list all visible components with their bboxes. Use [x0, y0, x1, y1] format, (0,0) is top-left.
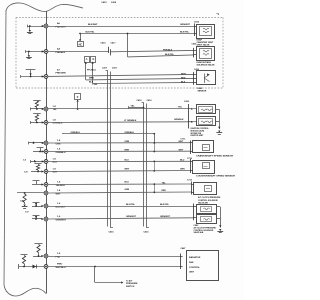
wire WHT row y193 [48, 192, 191, 193]
connector pin D5 [44, 160, 48, 164]
wire pin2 ground stub [26, 50, 44, 55]
junction crank2 [153, 143, 155, 152]
svg-text:BLK/YEL: BLK/YEL [180, 32, 190, 34]
wire BLK/YEL row y33.5 [80, 33, 194, 35]
label BLK/YEL mid2 [165, 54, 175, 56]
arrow into box B [92, 62, 94, 84]
connector pin A4 [44, 50, 48, 54]
PCM dashed border top [16, 17, 223, 19]
connector pin D1 [44, 107, 48, 111]
label C17 [25, 212, 30, 214]
label A icm [191, 108, 193, 111]
svg-text:EVAP: EVAP [197, 38, 203, 41]
connector bracket atp [192, 182, 195, 195]
label WHT right crank2 [179, 149, 184, 151]
label BLK [89, 82, 94, 84]
connector pin A15 [44, 254, 48, 258]
svg-text:C951: C951 [192, 43, 198, 45]
svg-text:WHT: WHT [179, 141, 184, 143]
label C416 [111, 1, 117, 4]
svg-text:ORN/BLU: ORN/BLU [56, 152, 66, 154]
label D9 BLU/WHT [56, 203, 67, 208]
svg-text:WHT: WHT [53, 172, 59, 174]
wire pin8 stub [31, 160, 44, 163]
label C416 C417 [101, 42, 117, 45]
svg-text:PNK/BLK: PNK/BLK [56, 52, 66, 54]
junction counter2 [153, 161, 155, 171]
svg-text:EVAP BYPASS: EVAP BYPASS [197, 61, 212, 64]
label GRN/WHT mid [126, 216, 137, 218]
svg-text:PNK/GRN: PNK/GRN [56, 73, 67, 75]
resistor R4 [23, 194, 26, 203]
svg-text:BLU: BLU [180, 160, 185, 162]
label C417 C417 pair1 [102, 66, 118, 69]
junction pin13 [35, 216, 37, 220]
svg-text:RED: RED [181, 78, 186, 80]
solenoid EVAP bypass solenoid valve box [197, 47, 215, 61]
solenoid A/T clutch sol B box [197, 215, 217, 224]
svg-text:A/T CLUTCH PRESSURE: A/T CLUTCH PRESSURE [198, 196, 221, 199]
caption A/T pressure control [198, 196, 221, 204]
junction counter1 [153, 161, 155, 163]
label BLK/YEL right [180, 32, 190, 34]
connector pin D7 [44, 183, 48, 187]
caption EVAP bypass solenoid valve [197, 61, 216, 67]
reference box F [75, 94, 81, 100]
label D10 GRN/WHT [56, 216, 67, 221]
label C416 C416 pair2 [137, 99, 153, 102]
connector C951 label [192, 43, 198, 45]
label D4 ORN/BLU [56, 149, 66, 154]
ground G3 [22, 203, 28, 209]
ignition control module box B [197, 117, 216, 126]
wire pin9 stub [31, 171, 42, 173]
label A16 PNK/WHT [56, 264, 67, 269]
wire R5 to stub [38, 253, 40, 257]
label YEL right [178, 106, 183, 108]
resistor R5 [35, 244, 43, 253]
arrow into pin3 [42, 75, 44, 77]
PCM dashed border bottom [16, 87, 223, 89]
label *1 [217, 12, 220, 16]
connector pin D10 [44, 217, 48, 221]
caption countershaft speed sensor [196, 175, 236, 178]
connector bracket radiator [180, 254, 183, 270]
junction atps [94, 266, 96, 268]
wire pin15 stub [19, 264, 44, 269]
cable pair2 left [142, 103, 144, 227]
reference box B [91, 57, 96, 63]
label C146 [92, 83, 98, 86]
svg-text:A: A [191, 108, 193, 111]
label C415 [101, 1, 107, 4]
reference box HC [78, 42, 84, 47]
label ORN/BLU mid2 [125, 132, 135, 134]
junction pin1 [29, 25, 31, 27]
ground ICM [216, 127, 222, 135]
svg-text:PPL/BLU: PPL/BLU [87, 69, 96, 71]
svg-text:C416: C416 [147, 99, 153, 102]
connector C915 label [194, 21, 200, 23]
connector bracket crank [190, 141, 193, 155]
label D1 YEL [53, 106, 58, 111]
wire pin5 stub [30, 121, 43, 124]
connector bracket EGR [194, 72, 197, 85]
junction pin12 [35, 203, 37, 207]
junction crank1 [153, 142, 155, 144]
ignition control module box A [197, 105, 216, 114]
svg-text:YEL/BLU: YEL/BLU [56, 185, 66, 187]
label WHT right egr [181, 74, 186, 76]
arrow into pin12 [41, 205, 43, 207]
svg-text:SENSOR: SENSOR [198, 91, 207, 93]
caption EVAP canister vent shut valve [197, 38, 214, 46]
connector C711 label [181, 138, 187, 140]
arrow into pin14 [41, 255, 43, 257]
radiator fan control unit box [187, 251, 219, 281]
svg-text:WHT: WHT [56, 194, 62, 196]
label YEL mid [131, 106, 136, 108]
ground G1 [27, 30, 33, 34]
label ORN mid [125, 141, 130, 143]
wire R1 to stub [36, 107, 38, 109]
svg-text:BLK/YEL: BLK/YEL [160, 204, 170, 206]
connector pin A16 [44, 265, 48, 269]
label A7 PNK/GRN [56, 68, 67, 74]
wire PNK/BLK continuation y52.2 [111, 50, 194, 51]
label GRN right counter [180, 168, 185, 170]
svg-text:C712: C712 [187, 180, 193, 182]
sensor crankshaft speed sensor box [193, 141, 214, 153]
connector pin D4 [44, 150, 48, 154]
arrow into box F [77, 99, 79, 109]
wire WHT row y171.5 [48, 171, 190, 172]
resistor R6 [21, 255, 28, 264]
label PPL/BLU [87, 69, 96, 71]
wire pin3 stub [21, 70, 44, 78]
connector pin D8 [44, 191, 48, 195]
svg-text:YEL: YEL [53, 109, 58, 111]
svg-text:C416: C416 [109, 231, 115, 234]
wire BLK/YEL row y57 [128, 55, 194, 57]
connector pin D3 [44, 141, 48, 145]
wire PNK/WHT row y26 [48, 26, 194, 28]
svg-text:PNK/BLK: PNK/BLK [163, 50, 173, 52]
svg-text:GRN: GRN [180, 168, 185, 170]
svg-text:BLK/YEL: BLK/YEL [86, 32, 96, 34]
wire BLU/WHT row y206 [48, 206, 193, 208]
connector bracket EVAP bypass [194, 48, 197, 58]
label A4 PNK/BLK [56, 48, 66, 54]
cable pair1 right [111, 72, 114, 228]
arrow into pin6 [42, 142, 44, 144]
label ORN/BLU mid1 [71, 132, 81, 134]
sensor countershaft speed sensor box [193, 161, 215, 174]
svg-text:BLU: BLU [125, 160, 130, 162]
label D7 YEL/BLU [56, 182, 66, 187]
caption A/T clutch solenoid valves [194, 225, 217, 234]
svg-text:BLK/WHT: BLK/WHT [88, 24, 98, 26]
arrow into pin13 [41, 218, 43, 220]
diode D1 [33, 265, 37, 269]
reference box A [85, 57, 90, 63]
connector bracket ICM [189, 104, 197, 129]
wire HC box drop [80, 34, 82, 40]
wire EGR row1 y75.3 [48, 74, 193, 76]
svg-text:GRN/BLK: GRN/BLK [53, 123, 63, 125]
wire YEL row y107.5 [129, 106, 145, 109]
svg-text:WHT: WHT [125, 169, 130, 171]
wire drop to A/T pressure switch [95, 267, 122, 283]
label D5 BLU [53, 158, 58, 163]
cable pair1 left [106, 71, 108, 227]
wire pin1 ground stub [27, 25, 43, 30]
arrow into pin4 [42, 108, 44, 110]
svg-text:RED: RED [162, 190, 167, 192]
wire - torn harness edge top [6, 3, 83, 12]
connector C416 label egr [194, 68, 200, 71]
svg-text:IGNITOR UNIT: IGNITOR UNIT [191, 135, 205, 137]
svg-text:COUNTERSHAFT SPEED SENSOR: COUNTERSHAFT SPEED SENSOR [196, 175, 236, 178]
label RED mid [162, 182, 167, 192]
label L18 [23, 160, 27, 162]
sensor A/T pressure box [194, 183, 217, 195]
wire pin11 long left [17, 192, 44, 194]
wire PNK row y256 [48, 256, 180, 258]
label BLU right counter [180, 160, 185, 162]
arrow into pin8 [42, 160, 44, 162]
svg-text:C415: C415 [101, 1, 107, 4]
label RED right egr [181, 78, 186, 80]
connector C416 label icm [184, 100, 190, 103]
svg-text:C416: C416 [144, 231, 150, 234]
wire ORN/BLU row y151.5 [48, 150, 190, 152]
wire - main connector bus [46, 11, 48, 293]
svg-text:SOLENOID VALVE: SOLENOID VALVE [197, 64, 216, 67]
svg-text:CONTROL: CONTROL [189, 267, 200, 269]
svg-text:FAN: FAN [189, 261, 194, 264]
ground G2 [26, 55, 32, 58]
resistor R2 [33, 114, 41, 121]
wire YEL/BLU row y184.5 [48, 183, 191, 186]
label C49 [20, 200, 25, 203]
svg-text:C417: C417 [102, 66, 108, 69]
svg-text:GRN: GRN [125, 189, 130, 191]
label D8 WHT [56, 190, 62, 195]
connector pin D2 [44, 121, 48, 125]
svg-text:ORN/BLU: ORN/BLU [125, 132, 135, 134]
svg-text:GRN/BLK: GRN/BLK [174, 119, 184, 121]
svg-text:BRN: BRN [125, 150, 130, 152]
wire YEL row y109 [48, 108, 189, 110]
svg-text:WHT: WHT [181, 74, 186, 76]
svg-text:BLU: BLU [53, 162, 58, 164]
svg-text:MRN: MRN [89, 78, 94, 80]
wire BLK row3 y83.3 [93, 82, 194, 83]
solenoid EVAP canister vent shut valve box [197, 25, 215, 39]
svg-text:C915: C915 [194, 21, 200, 23]
svg-text:C710: C710 [187, 158, 193, 160]
arrow into pin5 [42, 121, 44, 123]
svg-text:C416: C416 [101, 42, 107, 45]
wire GRN/WHT row y219 [48, 218, 193, 219]
label D2 GRN/BLK [53, 119, 63, 124]
label GRN mid [125, 189, 130, 191]
label BLU mid2 [125, 182, 130, 184]
arrow into pin9 [41, 170, 43, 172]
svg-text:HC: HC [79, 44, 83, 47]
svg-text:To A/T: To A/T [126, 279, 133, 282]
svg-text:C487: C487 [181, 247, 187, 250]
wire ORN/BLU row y133.8 [62, 133, 154, 135]
svg-text:C416: C416 [137, 99, 143, 102]
svg-text:CONTROL SOLENOID: CONTROL SOLENOID [198, 200, 218, 202]
svg-text:LT GRN/BLK: LT GRN/BLK [124, 120, 137, 122]
svg-text:RADIATOR: RADIATOR [189, 256, 201, 259]
svg-text:BLU/YEL: BLU/YEL [126, 204, 136, 206]
caption crankshaft speed sensor [196, 155, 234, 158]
wire pin6 stub [29, 142, 44, 145]
cable pair2 right [147, 104, 150, 228]
connector bracket EVAP vent [194, 24, 197, 37]
svg-text:ORN/BLU: ORN/BLU [71, 132, 81, 134]
wire ORN row y143 [48, 142, 190, 144]
resistor R1 [33, 101, 41, 108]
wire R2 to stub [36, 121, 38, 123]
connector C487 label [181, 247, 187, 250]
wire R3 to stub [37, 170, 39, 172]
label LT GRN/BLK mid [124, 120, 137, 122]
connector pin A7 [44, 75, 48, 79]
label BLK right egr [181, 82, 186, 84]
svg-text:C146: C146 [92, 83, 98, 86]
label MRN [89, 78, 94, 80]
sensor EGR valve box [197, 71, 216, 85]
svg-text:CANISTER VENT: CANISTER VENT [197, 41, 214, 44]
junction pin3 [30, 73, 32, 77]
svg-text:PNK/: PNK/ [57, 264, 63, 266]
wire R6 to stub [23, 264, 25, 268]
svg-text:C416: C416 [111, 1, 117, 4]
svg-text:EGR: EGR [198, 88, 203, 90]
arrow into box A [85, 62, 87, 80]
junction pin4 [36, 108, 38, 110]
arrow into pin7 [42, 150, 44, 152]
label PNK/BLK mid [163, 50, 173, 52]
junction pin2 [28, 51, 30, 53]
wire BLK/YEL branch drop [127, 33, 129, 57]
inline connector C416/C417 [109, 47, 111, 56]
label BLK/YEL mid [86, 32, 96, 34]
wire MRN row2 y79.3 [86, 78, 194, 80]
wire pin14 stub [33, 256, 42, 258]
svg-text:WHT/BLU: WHT/BLU [56, 267, 67, 269]
junction pin11 [24, 192, 26, 194]
arrow into HC box [79, 39, 81, 41]
junction F row [77, 108, 79, 110]
connector C712 label [187, 180, 193, 182]
wire pin13 stub [32, 216, 42, 220]
label GRN/WHT mid2 [160, 216, 171, 218]
svg-text:GRN/WHT: GRN/WHT [180, 24, 191, 26]
svg-text:GRN/WHT: GRN/WHT [126, 216, 137, 218]
label BLU/YEL mid [126, 204, 136, 206]
label A6 PNK/WHT [56, 22, 67, 28]
svg-text:C417: C417 [111, 42, 117, 45]
wire ICM common ground [216, 109, 220, 129]
label C416 pair2 bottom [144, 231, 150, 234]
svg-text:WHT: WHT [179, 149, 184, 151]
resistor R3 [35, 164, 42, 171]
svg-text:B: B [191, 121, 193, 124]
connector bracket sol [194, 204, 197, 221]
wire pin10 stub [32, 181, 42, 185]
label BLK/YEL mid3 [160, 204, 170, 206]
label A15 PNK [56, 253, 61, 258]
svg-text:A: A [86, 57, 88, 61]
arrow to A/T pressure switch [121, 281, 123, 283]
svg-text:C417: C417 [112, 66, 118, 69]
junction ORN/BLU [153, 133, 155, 135]
label C31 [24, 172, 29, 174]
svg-text:UNIT: UNIT [189, 272, 195, 274]
svg-text:BLK: BLK [181, 82, 186, 84]
svg-text:CRANKSHAFT SPEED SENSOR: CRANKSHAFT SPEED SENSOR [196, 155, 234, 158]
label B icm [191, 121, 193, 124]
wire pin7 stub [33, 148, 44, 153]
label WHT mid [125, 169, 130, 171]
connector pin A6 [44, 24, 48, 28]
label WHT right crank [179, 141, 184, 143]
label To A/T PRESSURE SWITCH [126, 279, 138, 288]
arrow into pin10 [41, 183, 43, 185]
wire - torn harness edge bottom [4, 285, 46, 296]
svg-text:PRESSURE: PRESSURE [126, 283, 138, 285]
junction atp2 [153, 184, 155, 193]
label D6 WHT [53, 168, 59, 173]
label BRN mid [125, 150, 130, 152]
arrow into pin2 [42, 50, 44, 52]
connector pin D9 [44, 204, 48, 208]
label BLU mid [125, 160, 130, 162]
connector pin D6 [44, 170, 48, 174]
svg-text:ORN: ORN [56, 144, 61, 146]
wire pin12 stub [32, 203, 42, 207]
wire PNK/WHT row y266.5 [48, 266, 180, 268]
svg-text:SWITCH: SWITCH [126, 286, 135, 288]
svg-text:C416: C416 [184, 100, 190, 103]
wire PNK/BLK row y51.5 [48, 51, 108, 53]
svg-text:GRN/WHT: GRN/WHT [56, 220, 67, 222]
wire GRN/BLK row y122.5 [48, 121, 189, 124]
wire - left harness vertical [4, 10, 6, 285]
caption radiator fan control unit [189, 256, 201, 273]
junction row2 [79, 33, 81, 35]
label D3 ORN [56, 140, 61, 145]
wire sol common ground [217, 207, 221, 228]
label GRN/WHT right [88, 24, 191, 26]
wire pin4 stub [30, 108, 43, 111]
connector bracket counter [190, 159, 193, 173]
svg-text:VALVE A/B: VALVE A/B [194, 231, 204, 234]
ground sol [217, 225, 223, 232]
svg-text:ORN: ORN [125, 141, 130, 143]
svg-text:BLU: BLU [125, 182, 130, 184]
PCM dashed border left [15, 18, 17, 89]
label C416 pair1 bottom [109, 231, 115, 234]
wire BLU row y161.5 [48, 160, 190, 162]
arrow into pin1 [42, 25, 44, 27]
